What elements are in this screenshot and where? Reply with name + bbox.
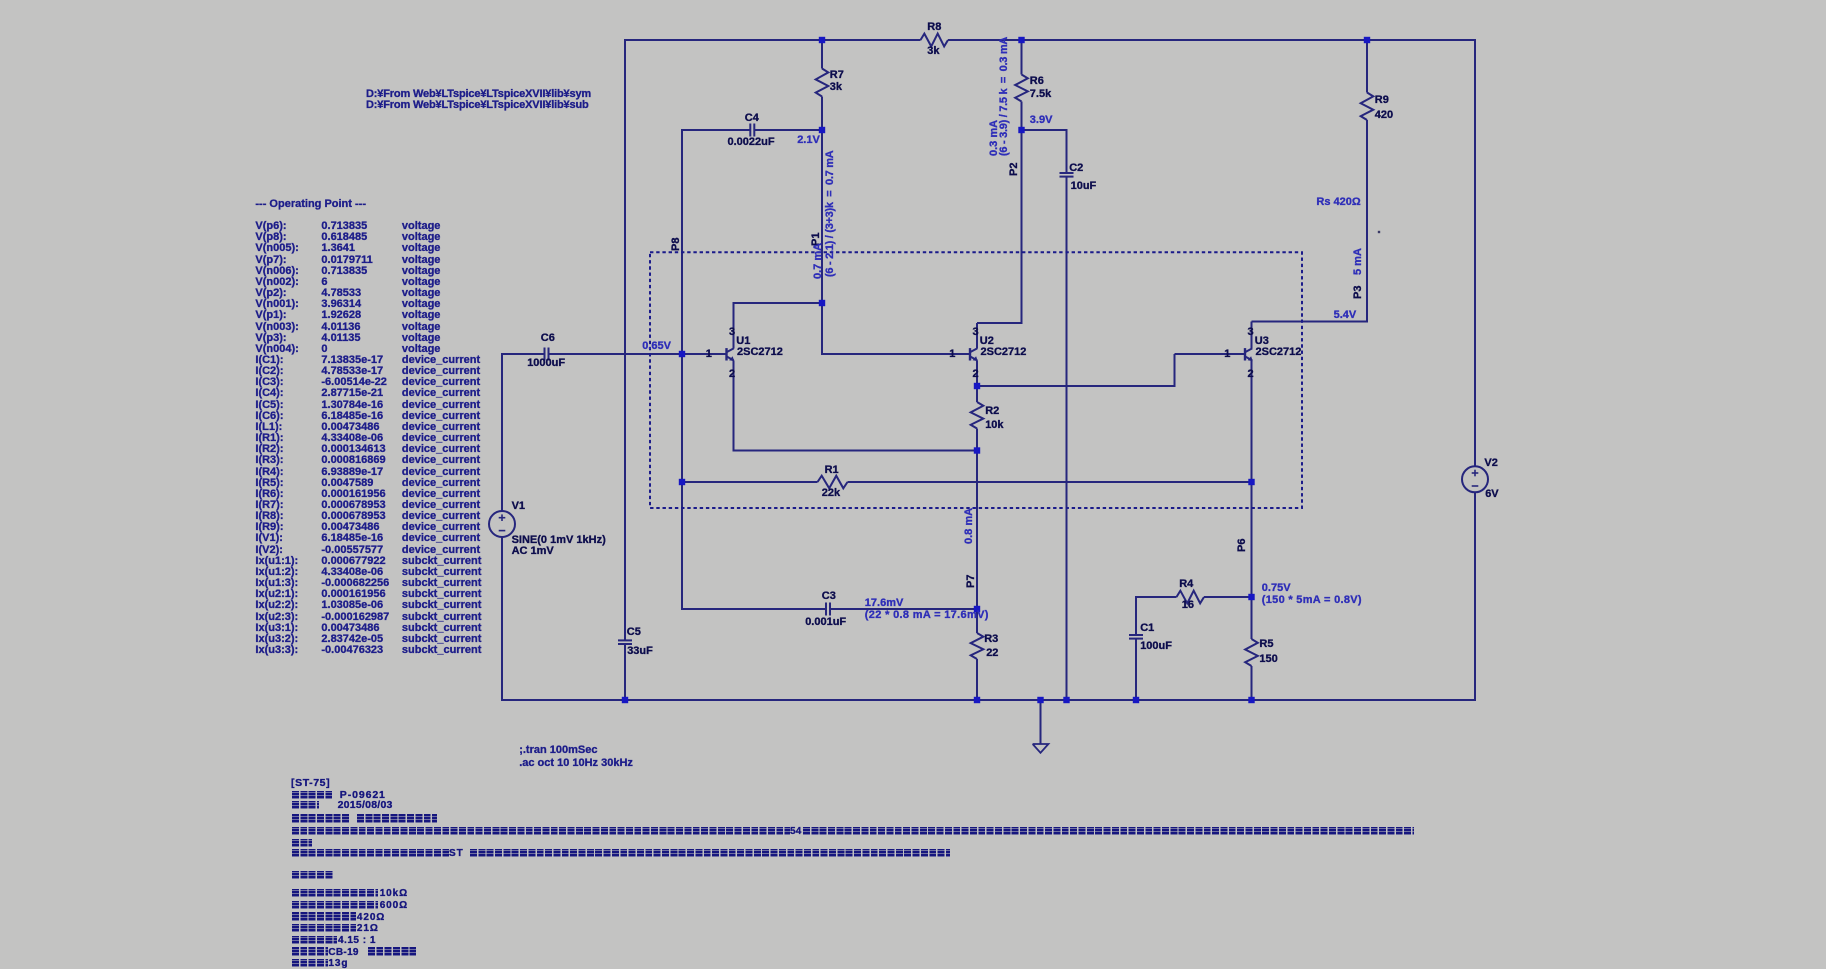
junction U1 collector bus xyxy=(819,300,825,306)
value R4 xyxy=(1182,600,1194,611)
junction R7/top bus xyxy=(819,37,825,43)
annotation 0.65V xyxy=(642,341,671,352)
annotation 5.4V xyxy=(1334,310,1357,321)
wire U1 emitter vertical xyxy=(733,360,735,451)
resistor R4 xyxy=(1177,591,1205,604)
label R4 xyxy=(1179,579,1193,590)
label U3 xyxy=(1255,336,1269,347)
value U1 2SC2712 xyxy=(737,347,783,358)
net label P1 xyxy=(811,233,822,246)
value R3 xyxy=(986,648,998,659)
label V2 xyxy=(1484,458,1497,469)
value U2 2SC2712 xyxy=(981,347,1027,358)
wire C3 left lead from P8 xyxy=(681,608,826,610)
capacitor C5 xyxy=(618,639,632,641)
label R6 xyxy=(1030,76,1044,87)
wire node down to U2 base xyxy=(821,303,823,355)
wire R7 bottom lead xyxy=(821,97,823,132)
resistor R5 xyxy=(1245,639,1258,666)
resistor R1 left lead xyxy=(681,481,818,483)
annotation 5 mA xyxy=(1353,248,1364,275)
jp line hatsubaibi xyxy=(292,801,320,809)
jp tokuchou header xyxy=(292,839,312,847)
label R7 xyxy=(830,70,844,81)
wire P8 vertical xyxy=(681,129,683,609)
wire C1 top lead xyxy=(1135,596,1137,635)
junction node 3.9V xyxy=(1018,127,1024,133)
wire R2 bottom lead xyxy=(976,429,978,452)
wire into U3 base xyxy=(1175,353,1246,355)
spec line 2 impedance xyxy=(292,901,378,909)
label R8 xyxy=(927,22,941,33)
jp line maker category xyxy=(292,814,350,822)
wire V1 bottom lead xyxy=(501,537,503,701)
value C4 xyxy=(728,137,775,148)
operating point table xyxy=(255,221,481,656)
annotation Rs 420ohm xyxy=(1316,197,1360,208)
junction R6/top bus xyxy=(1018,37,1024,43)
transistor U1 pin 3 xyxy=(729,327,735,338)
voltage source V1 circle xyxy=(489,511,515,537)
annotation 0.75V xyxy=(1262,583,1291,594)
label U1 xyxy=(736,336,750,347)
net label P3 xyxy=(1353,286,1364,299)
label R3 xyxy=(984,634,998,645)
label U2 xyxy=(980,336,994,347)
jp spec header xyxy=(292,871,333,879)
wire right outer vertical below V2 xyxy=(1474,492,1476,701)
capacitor C4 xyxy=(749,124,751,137)
annotation 150*5mA xyxy=(1262,595,1362,606)
net label P7 xyxy=(966,575,977,588)
annotation formula 0.7mA xyxy=(825,150,836,276)
resistor R1 right lead xyxy=(848,481,1253,483)
spec line 3 dc resistance xyxy=(292,912,356,920)
annotation 3.9V xyxy=(1030,115,1053,126)
annotation 22*0.8mA xyxy=(865,610,989,621)
wire R5 bottom lead xyxy=(1251,666,1253,701)
spec line 7 weight xyxy=(292,959,328,967)
wire C4 left lead xyxy=(681,129,750,131)
junction node 2.1V xyxy=(819,127,825,133)
value C6 xyxy=(527,358,565,369)
ground stub xyxy=(1040,700,1042,744)
annotation 0.8 mA xyxy=(964,507,975,543)
wire R4 right lead xyxy=(1204,596,1251,598)
wire R9 bottom lead xyxy=(1366,120,1368,323)
wire U3 collector vertical xyxy=(1251,322,1253,349)
resistor R9 xyxy=(1361,93,1374,121)
value C1 xyxy=(1140,641,1172,652)
value U3 2SC2712 xyxy=(1256,347,1302,358)
wire U2 collector up to node 3.9V xyxy=(1021,129,1023,324)
value C3 xyxy=(805,617,846,628)
junction R4/R5 node 0.75V xyxy=(1248,594,1254,600)
value R2 xyxy=(985,420,1003,431)
label C6 xyxy=(541,333,555,344)
label R9 xyxy=(1375,95,1389,106)
resistor R3 xyxy=(971,633,984,659)
label V1 xyxy=(512,501,525,512)
resistor R7 xyxy=(816,69,829,97)
wire input to C6 xyxy=(501,353,545,355)
library path text xyxy=(366,89,591,100)
wire top supply bus right segment xyxy=(948,39,1476,41)
transistor U1 pin 1 xyxy=(706,349,712,360)
value R6 xyxy=(1030,89,1051,100)
stray dot xyxy=(1378,231,1380,233)
junction R9/top bus xyxy=(1364,37,1370,43)
resistor R2 xyxy=(971,402,984,429)
label R2 xyxy=(985,406,999,417)
value R5 xyxy=(1259,654,1277,665)
label R1 xyxy=(825,465,839,476)
spec line 5 ratio xyxy=(292,936,337,944)
label C1 xyxy=(1140,623,1154,634)
capacitor C1 xyxy=(1129,634,1143,636)
label R5 xyxy=(1259,639,1273,650)
wire R3 bottom lead xyxy=(976,659,978,701)
transistor U3 pin 1 xyxy=(1224,349,1230,360)
annotation formula 0.3mA xyxy=(999,37,1010,156)
wire U1 collector vertical xyxy=(733,302,735,349)
transistor U2 2SC2712 xyxy=(969,348,971,360)
resistor R6 xyxy=(1015,75,1028,102)
wire U3 collector horizontal to R9 xyxy=(1252,321,1369,323)
wire U2 collector jog horizontal xyxy=(977,322,1023,324)
wire U1 emitter to R2 bottom xyxy=(733,450,979,452)
wire node 2.1V down to U1 collector bus xyxy=(821,130,823,303)
net label P8 xyxy=(671,237,682,250)
label C3 xyxy=(822,591,836,602)
wire C3 right lead xyxy=(830,608,978,610)
net label P2 xyxy=(1009,163,1020,176)
junction C1/ground rail xyxy=(1133,697,1139,703)
wire C1 bottom lead xyxy=(1135,639,1137,701)
wire node 3.9V to C2 xyxy=(1021,129,1067,131)
transistor U2 pin 3 xyxy=(973,327,979,338)
wire jog up toward U3 base xyxy=(1174,354,1176,387)
wire U1 base lead xyxy=(681,353,727,355)
junction C3/R3 node P7 xyxy=(974,606,980,612)
spec line 6 shape xyxy=(292,947,328,955)
value V1 SINE xyxy=(512,535,606,546)
junction R1 right / P6 xyxy=(1248,479,1254,485)
value R1 xyxy=(822,488,840,499)
wire left outer vertical below C5 xyxy=(624,645,626,702)
transistor U2 pin 1 xyxy=(949,349,955,360)
wire U2 emitter vertical xyxy=(976,360,978,387)
junction C2/ground rail xyxy=(1063,697,1069,703)
junction ground symbol/rail xyxy=(1037,697,1043,703)
transistor U2 pin 2 xyxy=(973,369,979,380)
product heading [ST-75] xyxy=(291,778,330,789)
value V1 AC xyxy=(512,546,554,557)
value R8 xyxy=(927,46,939,57)
value C5 xyxy=(627,646,653,657)
transistor U1 pin 2 xyxy=(729,369,735,380)
transistor U3 2SC2712 xyxy=(1244,348,1246,360)
wire U3 emitter vertical xyxy=(1251,360,1253,598)
jp line tsuuhan code xyxy=(292,791,333,799)
resistor R1 xyxy=(818,476,848,489)
label C2 xyxy=(1069,163,1083,174)
wire R3 column down from emitter node xyxy=(976,450,978,634)
wire R6 bottom lead xyxy=(1021,102,1023,132)
voltage source V2 circle xyxy=(1462,466,1488,492)
wire top supply bus left segment xyxy=(624,39,921,41)
jp line onsei pulse xyxy=(292,849,449,857)
wire C6 to node P8 xyxy=(549,353,684,355)
resistor R8 xyxy=(921,34,949,47)
jp long description line xyxy=(292,827,790,835)
dashed selection box xyxy=(650,252,1302,508)
junction U2 emitter xyxy=(974,383,980,389)
wire right outer vertical above V2 xyxy=(1474,39,1476,467)
wire R9 top lead xyxy=(1366,39,1368,93)
capacitor C6 xyxy=(544,348,546,361)
annotation 2.1V xyxy=(797,135,820,146)
net label P6 xyxy=(1237,539,1248,552)
transistor U3 pin 3 xyxy=(1248,327,1254,338)
junction R5/ground rail xyxy=(1248,697,1254,703)
wire U1 collector bus horizontal xyxy=(733,302,824,304)
wire to U2 base xyxy=(822,353,970,355)
wire U3 emitter node P6 down to R5 xyxy=(1251,596,1253,639)
junction R3/ground rail xyxy=(974,697,980,703)
wire ground rail bottom xyxy=(501,699,1476,701)
wire left outer vertical (V+ rail down to C5) xyxy=(624,39,626,640)
capacitor C3 xyxy=(825,603,827,616)
junction R2 bottom xyxy=(974,447,980,453)
wire C2 top lead xyxy=(1066,129,1068,173)
spec line 4 dc resistance xyxy=(292,924,356,932)
ground symbol xyxy=(1033,744,1049,753)
annotation 0.3 mA xyxy=(989,120,1000,156)
wire U2 collector vertical xyxy=(976,323,978,349)
junction C5/ground rail xyxy=(622,697,628,703)
wire C2 bottom lead to ground rail xyxy=(1066,177,1068,701)
directive .ac xyxy=(519,758,633,769)
spec line 1 impedance xyxy=(292,889,378,897)
capacitor C2 xyxy=(1060,172,1074,174)
wire R6 top lead xyxy=(1021,39,1023,75)
annotation 0.7 mA xyxy=(813,243,824,279)
wire R2 top lead xyxy=(976,385,978,402)
value R9 xyxy=(1375,110,1393,121)
transistor U1 2SC2712 xyxy=(725,348,727,360)
operating point header xyxy=(255,199,366,210)
wire C4 right lead xyxy=(754,129,823,131)
value V2 6V xyxy=(1485,489,1498,500)
label C4 xyxy=(745,113,759,124)
transistor U3 pin 2 xyxy=(1248,369,1254,380)
directive .tran xyxy=(519,745,597,756)
wire R4 left lead xyxy=(1135,596,1177,598)
wire V1 top lead xyxy=(501,353,503,511)
value R7 xyxy=(830,82,842,93)
junction R1 left / P8 xyxy=(679,479,685,485)
wire R7 top lead xyxy=(821,39,823,69)
junction node 0.65V P8 xyxy=(679,351,685,357)
annotation 17.6mV xyxy=(865,598,904,609)
wire U2 emitter to U3 base horizontal xyxy=(976,385,1176,387)
label C5 xyxy=(627,627,641,638)
value C2 xyxy=(1071,181,1097,192)
